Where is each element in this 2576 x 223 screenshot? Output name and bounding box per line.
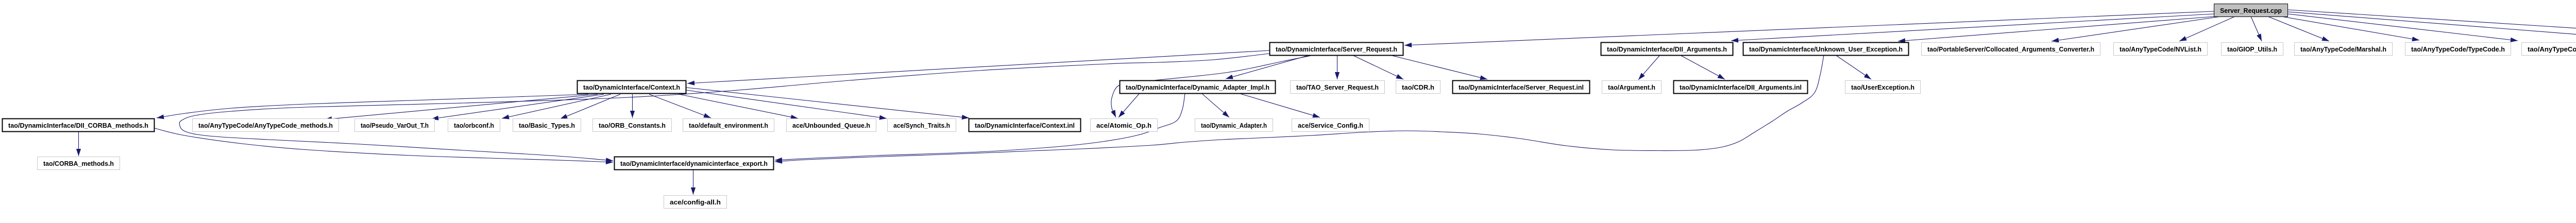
svg-text:ace/Atomic_Op.h: ace/Atomic_Op.h: [1096, 122, 1151, 129]
svg-text:tao/DynamicInterface/Server_Re: tao/DynamicInterface/Server_Request.h: [1276, 46, 1397, 53]
svg-text:tao/DynamicInterface/Unknown_U: tao/DynamicInterface/Unknown_User_Except…: [1749, 46, 1903, 53]
svg-text:tao/Dynamic_Adapter.h: tao/Dynamic_Adapter.h: [1201, 122, 1267, 129]
svg-text:tao/DynamicInterface/DII_Argum: tao/DynamicInterface/DII_Arguments.inl: [1680, 84, 1802, 91]
svg-text:tao/DynamicInterface/DII_CORBA: tao/DynamicInterface/DII_CORBA_methods.h: [8, 122, 148, 129]
svg-text:tao/AnyTypeCode/Marshal.h: tao/AnyTypeCode/Marshal.h: [2300, 46, 2386, 53]
svg-text:tao/ORB_Constants.h: tao/ORB_Constants.h: [599, 122, 666, 129]
svg-text:tao/DynamicInterface/Context.i: tao/DynamicInterface/Context.inl: [975, 122, 1075, 129]
svg-text:tao/DynamicInterface/Dynamic_A: tao/DynamicInterface/Dynamic_Adapter_Imp…: [1126, 84, 1269, 91]
svg-text:tao/CDR.h: tao/CDR.h: [1402, 84, 1434, 91]
svg-text:tao/Basic_Types.h: tao/Basic_Types.h: [519, 122, 575, 129]
svg-text:tao/AnyTypeCode/TypeCode.h: tao/AnyTypeCode/TypeCode.h: [2411, 46, 2505, 53]
svg-text:tao/DynamicInterface/Server_Re: tao/DynamicInterface/Server_Request.inl: [1459, 84, 1584, 91]
svg-text:tao/CORBA_methods.h: tao/CORBA_methods.h: [43, 160, 114, 167]
svg-text:tao/default_environment.h: tao/default_environment.h: [689, 122, 768, 129]
svg-text:tao/Pseudo_VarOut_T.h: tao/Pseudo_VarOut_T.h: [361, 122, 429, 129]
svg-text:Server_Request.cpp: Server_Request.cpp: [2220, 7, 2282, 14]
svg-text:tao/DynamicInterface/DII_Argum: tao/DynamicInterface/DII_Arguments.h: [1607, 46, 1727, 53]
svg-text:tao/Argument.h: tao/Argument.h: [1608, 84, 1655, 91]
svg-text:tao/UserException.h: tao/UserException.h: [1851, 84, 1914, 91]
svg-text:tao/orbconf.h: tao/orbconf.h: [454, 122, 494, 129]
svg-text:ace/Synch_Traits.h: ace/Synch_Traits.h: [893, 122, 950, 129]
svg-text:tao/DynamicInterface/dynamicin: tao/DynamicInterface/dynamicinterface_ex…: [620, 160, 768, 167]
svg-text:tao/AnyTypeCode/Any_Impl.h: tao/AnyTypeCode/Any_Impl.h: [2528, 46, 2576, 53]
svg-text:ace/Service_Config.h: ace/Service_Config.h: [1298, 122, 1363, 129]
svg-text:tao/DynamicInterface/Context.h: tao/DynamicInterface/Context.h: [583, 84, 680, 91]
svg-text:tao/GIOP_Utils.h: tao/GIOP_Utils.h: [2227, 46, 2277, 53]
svg-text:ace/config-all.h: ace/config-all.h: [670, 199, 721, 206]
svg-text:tao/TAO_Server_Request.h: tao/TAO_Server_Request.h: [1296, 84, 1379, 91]
svg-text:tao/AnyTypeCode/NVList.h: tao/AnyTypeCode/NVList.h: [2120, 46, 2201, 53]
svg-text:tao/AnyTypeCode/AnyTypeCode_me: tao/AnyTypeCode/AnyTypeCode_methods.h: [198, 122, 333, 129]
svg-text:tao/PortableServer/Collocated_: tao/PortableServer/Collocated_Arguments_…: [1927, 46, 2094, 53]
svg-text:ace/Unbounded_Queue.h: ace/Unbounded_Queue.h: [792, 122, 870, 129]
